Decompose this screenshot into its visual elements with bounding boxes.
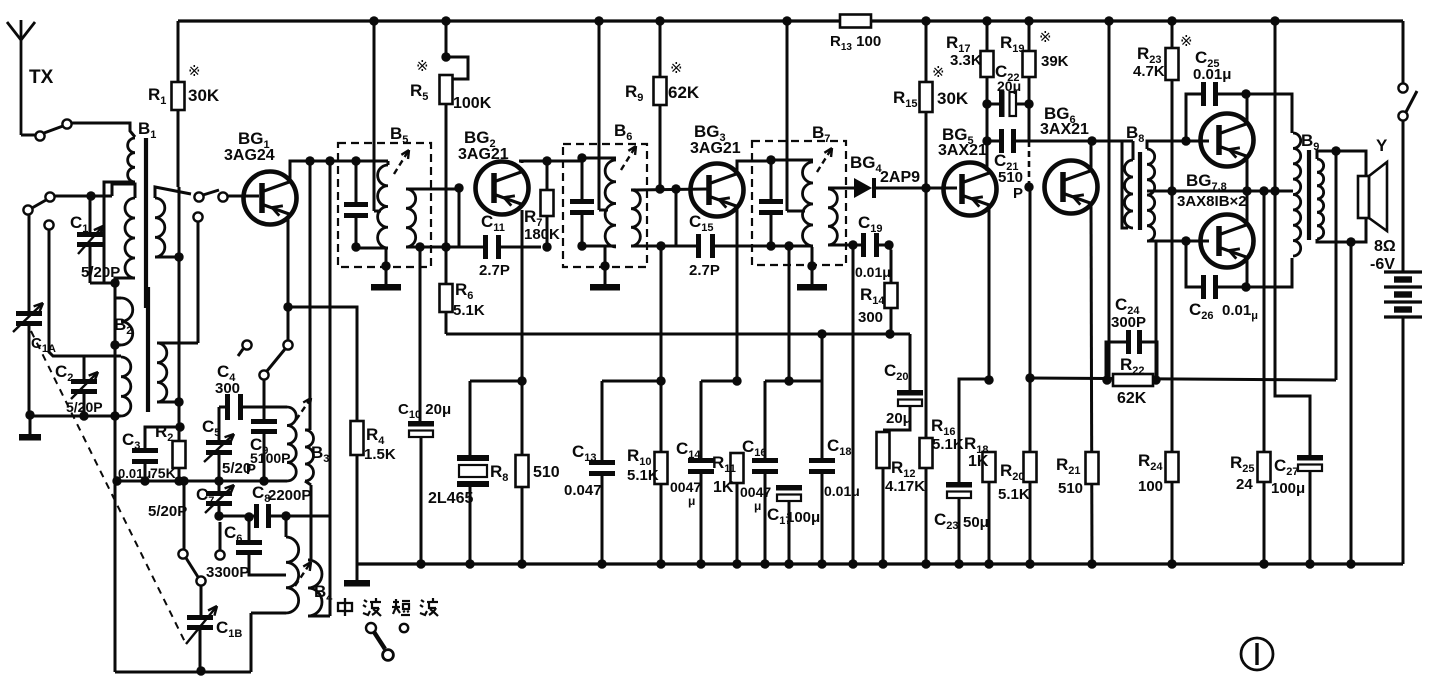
wire emitter common rail [1172, 190, 1293, 193]
wire B2 feedback to osc switch line [157, 342, 198, 345]
wire R10 riser [660, 246, 663, 381]
capacitor C21 510 [986, 104, 989, 141]
wire rail tap to B7 [786, 21, 789, 211]
capacitor C27 100u (electrolytic) [1263, 190, 1266, 193]
svg-text:300P: 300P [1111, 314, 1146, 331]
resistor R16 5.1K [925, 188, 928, 438]
ground at C1A [29, 415, 32, 434]
capacitor C1 5/20P (trimmer) [89, 196, 92, 232]
node BG6 collector [1087, 136, 1096, 145]
ground at main rail start [356, 564, 359, 580]
capacitor C25 0.01u [1186, 94, 1201, 141]
svg-text:5/20P: 5/20P [148, 503, 187, 520]
antenna TX [20, 40, 23, 135]
resistor R6 5.1K [445, 247, 448, 284]
ground under B6 [604, 247, 607, 284]
svg-text:100μ: 100μ [786, 509, 820, 526]
svg-text:100: 100 [1138, 478, 1163, 495]
svg-text:100μ: 100μ [1271, 480, 1305, 497]
wire B6 sec top to BG3 base [631, 189, 707, 190]
wire bus seg D [765, 380, 822, 383]
svg-text:3.3K: 3.3K [950, 52, 982, 69]
wire coupling bottom to bias column [155, 256, 179, 259]
band switch S2 (3300P side) [178, 549, 187, 558]
speaker Y 8ohm [1358, 176, 1369, 218]
wire BG2 emitter to R8 [521, 210, 524, 564]
node emitter junction [283, 302, 292, 311]
node C3 top at bias column [175, 422, 184, 431]
resistor R13 (inline in top rail) [840, 15, 871, 28]
wire AGC bus segment A [470, 380, 522, 383]
node R9 foot [655, 184, 664, 193]
capacitor C3 0.01u [145, 427, 180, 448]
resistor R17 3.3K [986, 21, 989, 51]
wire B7 bottom row [752, 245, 813, 248]
capacitor C22 20u (electrolytic) [999, 91, 1005, 117]
resistor R1 30K [177, 21, 180, 82]
mechanical gang dashed link C1A-C1B [31, 331, 186, 644]
node BG2 base [454, 183, 463, 192]
node C22 left [982, 99, 991, 108]
B9 core [1307, 150, 1311, 240]
capacitor C26 0.01u [1186, 241, 1201, 287]
capacitor inside B5 [355, 161, 358, 202]
variable capacitor C1A (gang) [28, 214, 31, 311]
svg-text:5.1K: 5.1K [453, 302, 485, 319]
node C7 bottom [214, 511, 223, 520]
svg-text:1K: 1K [713, 479, 734, 496]
wire BG6 collector [1090, 141, 1093, 169]
B6 secondary winding [631, 190, 640, 246]
wire B9 sec bottom to speaker [1317, 218, 1366, 242]
capacitor C14 0.047 [700, 381, 703, 458]
wire C17 riser from B7 bottom [788, 246, 791, 381]
svg-text:100K: 100K [453, 95, 492, 112]
capacitor inside B7 [770, 160, 773, 199]
trimmer arrow B4 [295, 562, 311, 586]
B5 secondary winding [406, 189, 416, 247]
node B6 top [577, 153, 586, 162]
wire base to C11 [458, 188, 461, 247]
IF transformer B7 (dashed can) [752, 141, 846, 265]
node C1 bottom [110, 278, 119, 287]
wire rail tap to B6 [598, 21, 601, 210]
wire BG7 emitter [1246, 157, 1249, 191]
svg-text:2.7P: 2.7P [479, 262, 510, 279]
svg-text:0047: 0047 [740, 484, 771, 500]
wire C8 row y516 [219, 515, 254, 518]
wire B8 sec top to BG7 base [1147, 141, 1186, 149]
wire osc switch to C4/C9 node [263, 380, 266, 407]
wire antenna to switch [21, 134, 36, 137]
svg-text:3AX8IB×2: 3AX8IB×2 [1177, 193, 1247, 210]
wire BG8 collector [1246, 258, 1249, 287]
svg-text:※: ※ [1039, 29, 1052, 46]
node AGC right end [885, 329, 894, 338]
wire detector return to ground rail [852, 245, 855, 564]
svg-text:2.7P: 2.7P [689, 262, 720, 279]
svg-text:20μ: 20μ [997, 78, 1021, 94]
resistor R24 100 [1171, 191, 1174, 452]
node B7 top [766, 155, 775, 164]
svg-text:3AG21: 3AG21 [690, 140, 741, 157]
svg-text:0.01μ: 0.01μ [824, 483, 860, 499]
resistor R18 1K [983, 452, 996, 482]
node speaker return [1346, 237, 1355, 246]
capacitor C8 2200P [254, 504, 259, 528]
resistor R22 62K [1113, 374, 1153, 386]
svg-text:5100P: 5100P [250, 450, 290, 466]
wire B4 winding bottom to return [251, 612, 286, 615]
svg-text:※: ※ [932, 64, 945, 81]
wire collector to B9 top [1246, 94, 1292, 133]
switch K1a (antenna) [35, 131, 44, 140]
wire S2 to C1B [200, 586, 203, 615]
band switch S1 (osc) [242, 340, 251, 349]
svg-text:※: ※ [416, 58, 429, 75]
node osc feed dots [305, 156, 314, 165]
wire hop to tank top [112, 184, 135, 198]
wire B7 sec bottom to C19 [828, 244, 861, 247]
resistor R19 39K [1028, 21, 1031, 51]
wire BG1 collector riser [290, 161, 356, 180]
wire S2 left contact riser [183, 481, 186, 549]
variable capacitor C1B (gang) [187, 615, 213, 620]
svg-text:510: 510 [998, 169, 1023, 186]
node BG8 collector [1241, 282, 1250, 291]
transistor BG2 3AG21 [476, 162, 529, 215]
resistor R14 300 [889, 245, 891, 250]
node B5 top [351, 156, 360, 165]
wire emitter row y247 [420, 246, 483, 249]
trimmer arrow B3 [296, 398, 311, 420]
wire bottom-left return y672 [115, 671, 251, 674]
band switch S3 MW/SW indicator [366, 623, 376, 633]
svg-text:3AG24: 3AG24 [224, 147, 275, 164]
resistor R8 510 [516, 455, 529, 487]
ground under B7 [811, 247, 814, 284]
svg-text:180K: 180K [524, 226, 560, 243]
wire return right corner to B4 [250, 613, 253, 672]
capacitor C16 0.047 [764, 381, 767, 458]
wire BG2 collector row [521, 161, 524, 163]
svg-text:Y: Y [1376, 136, 1388, 155]
wire B1 primary bottom return [104, 182, 135, 283]
wire BG7 base [1186, 140, 1209, 143]
node AGC taps on emitter line [517, 376, 526, 385]
wire bus seg C [701, 380, 737, 383]
transistor BG6 3AX21 [1045, 161, 1098, 214]
B7 primary winding [771, 159, 813, 162]
wire BG5 collector riser [986, 141, 989, 171]
svg-text:2AP9: 2AP9 [880, 169, 920, 186]
svg-text:4.7K: 4.7K [1133, 63, 1165, 80]
IF transformer B6 (dashed can) [563, 144, 647, 267]
node emitter/C23 [984, 375, 993, 384]
wire switch row to B2 [49, 230, 121, 356]
svg-text:2200P: 2200P [268, 487, 311, 504]
wire supply to emitter rail [1274, 21, 1277, 191]
svg-text:2L465: 2L465 [428, 490, 473, 507]
capacitor C24 300P [1106, 342, 1126, 380]
diode BG4 2AP9 [828, 187, 854, 190]
wire C20 to R12 [883, 406, 910, 430]
wire BG1 collector to B4 line [329, 161, 332, 616]
svg-text:8Ω: 8Ω [1374, 238, 1396, 255]
capacitor C7 5/20P [218, 481, 221, 491]
svg-text:1.5K: 1.5K [364, 446, 396, 463]
switch K1b [45, 192, 54, 201]
wire B2 feedback bottom to bias column [157, 401, 179, 404]
transistor BG5 3AX21 [944, 163, 997, 216]
wire speaker return to ground [1350, 242, 1353, 564]
svg-text:30K: 30K [188, 86, 220, 105]
wire tank bottom to bottom return [115, 278, 135, 672]
wire C1A bottom [28, 326, 31, 415]
transformer B8 primary loop [1092, 140, 1133, 143]
switch S1 spare contact tail [238, 349, 243, 356]
transformer B4 feedback winding [308, 485, 311, 560]
capacitor C20 20u (electrolytic) [897, 390, 923, 396]
svg-text:75K: 75K [150, 465, 176, 481]
resistor R2 75K [173, 441, 186, 468]
wire B3 top loop [243, 406, 287, 409]
node BG6 base [1024, 182, 1033, 191]
svg-text:0.01μ: 0.01μ [855, 264, 891, 280]
node B7 bottom [766, 241, 775, 250]
wire C23 branch [959, 379, 989, 482]
svg-text:300: 300 [858, 309, 883, 326]
svg-text:TX: TX [29, 67, 54, 88]
svg-text:62K: 62K [1117, 390, 1147, 407]
wire B5 secondary top to BG2 base [406, 188, 456, 191]
wire B5 sec bottom [406, 247, 420, 421]
node BG5 base [921, 183, 930, 192]
svg-text:510: 510 [533, 464, 560, 481]
wire BG1 emitter [287, 216, 290, 307]
svg-text:P: P [1013, 185, 1023, 202]
transistor BG7 3AX81B [1201, 114, 1254, 167]
svg-text:3AG21: 3AG21 [458, 146, 509, 163]
wire B8 center tap [1147, 190, 1172, 193]
capacitor C18 0.01u [821, 334, 824, 458]
capacitor C6 3300P [248, 519, 251, 540]
wire top supply rail [178, 19, 1403, 22]
resistor R25 24 [1263, 191, 1266, 452]
power switch [1402, 21, 1405, 84]
trimmer arrow B7 [817, 148, 832, 172]
wire BG6 emitter to R21 [1091, 205, 1092, 564]
wire bottom ground rail [357, 562, 1403, 565]
label MW chinese zhongbo [338, 598, 352, 616]
transistor BG8 3AX81B [1201, 215, 1254, 268]
wire to BG1 base [227, 195, 259, 198]
wire switch to battery [1402, 120, 1405, 271]
svg-text:24: 24 [1236, 476, 1253, 493]
node detector return [848, 240, 857, 249]
wire emitter to R4 [288, 307, 357, 421]
capacitor C11 2.7P [483, 235, 488, 259]
capacitor C17 100u (electrolytic) [776, 485, 802, 491]
svg-text:5.1K: 5.1K [932, 436, 964, 453]
wire bias column to R2 [178, 187, 181, 441]
dashed pot wiper line to BG6 base [1028, 141, 1031, 184]
transformer B9 primary winding [1293, 133, 1301, 256]
svg-text:5.1K: 5.1K [627, 467, 659, 484]
svg-text:1K: 1K [968, 453, 989, 470]
wire detector output [876, 187, 957, 190]
resistor R5 100K [445, 21, 448, 57]
wire B8 sec bottom [1147, 240, 1186, 243]
wire input row [50, 195, 112, 198]
node C1A foot [25, 410, 34, 419]
wire BG7 collector riser [1246, 94, 1249, 124]
svg-text:0.01μ: 0.01μ [1193, 66, 1231, 83]
svg-text:510: 510 [1058, 480, 1083, 497]
svg-text:39K: 39K [1041, 53, 1069, 70]
capacitor C19 0.01u [861, 233, 866, 257]
node C22 right [1024, 99, 1033, 108]
node coupling bottom [174, 252, 183, 261]
transformer B3 winding (MW osc) [287, 407, 296, 481]
svg-text:62K: 62K [668, 83, 700, 102]
svg-text:0047: 0047 [670, 479, 701, 495]
B7 secondary winding [828, 189, 837, 245]
capacitor C15 2.7P [675, 189, 678, 246]
IF transformer B5 (dashed can) [338, 143, 431, 267]
wire BG5 emitter [988, 207, 991, 380]
wire B9 sec top to speaker [1317, 151, 1366, 176]
svg-text:3300P: 3300P [206, 564, 249, 581]
wire emitter to osc switch [287, 307, 290, 341]
wire collector to B9 bottom [1246, 258, 1292, 287]
wire B8 sec bottom to feedback bus [1155, 241, 1158, 380]
wire supply to feedback bus [1108, 21, 1111, 380]
svg-text:20μ: 20μ [886, 410, 912, 427]
resistor R20 5.1K [1029, 187, 1032, 378]
B9 secondary winding [1317, 159, 1324, 239]
node BG7 base [1181, 136, 1190, 145]
wire switch to B1 primary [71, 123, 135, 137]
wire B6 sec bottom row [631, 245, 698, 248]
wire feedback riser [1335, 151, 1338, 380]
B5 primary winding [356, 160, 388, 163]
ceramic filter 2L465 [469, 381, 472, 455]
node emitter rail left [1167, 186, 1176, 195]
wire coupling top to base switch [155, 187, 191, 198]
resistor R7 180K [542, 156, 551, 165]
capacitor C23 50u (electrolytic) [946, 482, 972, 488]
resistor R23 4.7K [1171, 21, 1174, 48]
svg-text:0.047: 0.047 [564, 482, 602, 499]
switch at BG1 base [194, 192, 203, 201]
transformer B4 winding (SW osc) [286, 537, 299, 613]
wire BG3 emitter to R11 [736, 208, 739, 381]
svg-text:μ: μ [754, 499, 761, 513]
B1 coupling winding [155, 198, 165, 257]
node rail dots [416, 559, 425, 568]
capacitor C5 5/20P [218, 407, 221, 440]
svg-text:3AX21: 3AX21 [938, 142, 987, 159]
resistor R21 510 [1086, 452, 1099, 484]
node B2 taps [110, 340, 119, 349]
wire main tuning row y481 [117, 480, 287, 483]
capacitor C9 5100P [263, 407, 266, 419]
svg-text:3AX21: 3AX21 [1040, 121, 1089, 138]
feedback bus y380 [1030, 378, 1336, 380]
transistor BG1 3AG24 [244, 172, 297, 225]
node BG7 collector [1241, 89, 1250, 98]
B1 tank winding [125, 198, 135, 278]
svg-text:30K: 30K [937, 89, 969, 108]
transistor BG3 3AG21 [691, 164, 744, 217]
wire battery to ground rail [1402, 317, 1405, 564]
wire BG8 emitter riser [1246, 191, 1249, 225]
wire R19 junction to C21 row [1028, 104, 1031, 141]
resistor R10 5.1K [660, 381, 663, 452]
wire AGC line y334 [446, 333, 910, 336]
wire AGC to C20 [909, 334, 912, 390]
node B6 bottom [577, 241, 586, 250]
capacitor C13 0.047 [601, 381, 604, 460]
node BG8 base [1181, 236, 1190, 245]
capacitor inside B6 [581, 158, 584, 199]
wire rail tap to B5 [373, 21, 376, 211]
B8 primary winding [1125, 160, 1134, 228]
transformer B3 feedback winding [305, 429, 310, 432]
svg-text:※: ※ [670, 60, 683, 77]
svg-text:5.1K: 5.1K [998, 486, 1030, 503]
resistor R4 1.5K [351, 421, 364, 455]
switch contact 3300P throw [219, 522, 222, 550]
B2 core [146, 287, 150, 412]
B6 primary winding [582, 157, 616, 160]
resistor R11 1K [731, 453, 744, 483]
svg-text:4.17K: 4.17K [885, 478, 925, 495]
page number circle 1 [1241, 638, 1273, 670]
node B5 bottom [351, 242, 360, 251]
wire BG8 base [1186, 240, 1209, 243]
svg-text:※: ※ [188, 63, 201, 80]
resistor R12 4.17K [877, 432, 890, 468]
node C1 top [86, 191, 95, 200]
wire B4 feedback bottom [308, 615, 330, 618]
switch contact at BG1 base line [193, 212, 202, 221]
B2 feedback winding [157, 343, 167, 402]
svg-text:μ: μ [688, 494, 695, 508]
trimmer arrow B6 [621, 146, 636, 170]
trimmer arrow B5 [394, 150, 409, 174]
svg-text:※: ※ [1180, 33, 1193, 50]
B8 core [1138, 152, 1142, 230]
B8 secondary winding [1147, 149, 1155, 241]
wire BG1 collector to B3 [309, 161, 312, 430]
svg-text:50μ: 50μ [963, 514, 989, 531]
wire row 416 [30, 415, 121, 418]
ground under B5 [385, 248, 388, 284]
resistor R9 62K [659, 21, 662, 77]
node B2 feedback bottom [174, 397, 183, 406]
node feedback tap [1331, 146, 1340, 155]
resistor R15 30K [925, 21, 928, 82]
capacitor C10 20u (electrolytic) [408, 421, 434, 427]
wire B2 winding leads [115, 297, 121, 300]
wire BG3 collector row [737, 161, 771, 172]
switch K1b spare contact [44, 220, 53, 229]
wire bus seg B [602, 380, 661, 383]
